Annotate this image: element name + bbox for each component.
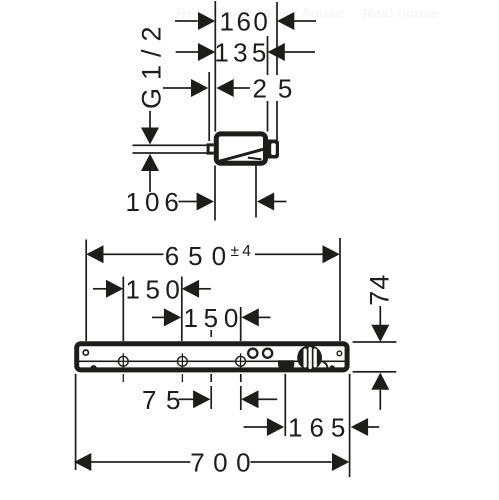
svg-text:700: 700 <box>190 448 259 478</box>
dash below bar x=182.4 <box>182 374 183 382</box>
dim 160 leader left <box>175 20 198 22</box>
dim 150a leader left <box>93 288 106 290</box>
left black dot <box>90 365 96 371</box>
dim 25 left leader <box>163 87 192 89</box>
twin ring left <box>248 349 257 358</box>
thermostat knob disc <box>297 345 322 370</box>
extension bar left x=75.6 <box>75 374 77 470</box>
dim 650 right arrow <box>323 245 340 263</box>
shelf lip <box>248 158 262 160</box>
dash below bar x=211.2 <box>210 374 212 382</box>
screw centre mark 3 <box>232 353 250 369</box>
dim 150a leader right <box>199 288 211 290</box>
extension line A (body left face) x=215.3 <box>214 1 216 132</box>
svg-text:Real-house: Real-house <box>363 5 439 21</box>
G1/2 pointer line upper <box>149 111 151 128</box>
dim 165 leader left <box>244 426 268 428</box>
dim 25 leader to text <box>233 87 250 89</box>
svg-text:25: 25 <box>253 74 304 104</box>
dim 106 right arrow <box>257 193 274 211</box>
svg-text:Real-house: Real-house <box>268 5 344 21</box>
svg-text:135: 135 <box>214 38 270 68</box>
extension line C (body right face, 135) x=267.5 <box>267 36 269 75</box>
dim 135 right arrow <box>268 43 285 61</box>
dim 650 line left <box>103 253 164 255</box>
extension line B (knob right face, 160) x=277 <box>276 2 278 75</box>
dim 74 top ref line <box>353 341 397 343</box>
dim 160 leader right <box>294 20 316 22</box>
dim 75 leader right <box>258 398 277 400</box>
center dash above bar x=211.2 <box>210 330 212 337</box>
bar outline (front view) <box>77 344 347 370</box>
dim 165 right arrow <box>351 418 368 436</box>
center line below bar x=211.2 <box>210 386 212 409</box>
right black dot <box>330 365 335 370</box>
extension bar right x=349.6 <box>349 374 351 477</box>
dim 150b leader left <box>152 317 164 319</box>
dim 135 left arrow <box>198 43 215 61</box>
dim 150a right arrow <box>182 280 199 298</box>
pipe upper line <box>133 144 208 146</box>
dim 135 leader right <box>285 51 316 53</box>
knob (side view) <box>265 140 280 159</box>
dim 75 leader left <box>179 398 194 400</box>
dim 74 down arrow <box>371 325 389 342</box>
body outline (side view) <box>216 134 265 163</box>
knob slot middle <box>309 347 312 369</box>
extension 150 x=123.3 <box>122 277 124 342</box>
svg-text:160: 160 <box>220 7 271 37</box>
line below bar x=240.8 <box>240 386 242 410</box>
extension 150 shared x=181.8 <box>181 277 183 342</box>
dim 150b right arrow <box>242 308 259 326</box>
dash below bar x=123.3 <box>123 374 124 382</box>
extension 150 right x=240.7 <box>240 307 242 341</box>
screw centre mark 1 <box>115 353 133 369</box>
dim 700 left arrow <box>74 453 91 471</box>
dim 700 right arrow <box>332 453 349 471</box>
dim 106 leader right <box>274 201 287 203</box>
dim 74 bottom ref line <box>353 371 397 373</box>
dim 75 right arrow <box>241 390 258 408</box>
dim 135 leader left <box>176 51 199 53</box>
G1/2 up arrow <box>141 154 159 171</box>
bar shelf front edge line <box>79 361 345 363</box>
screw centre mark 2 <box>174 353 192 369</box>
svg-text:G1/2: G1/2 <box>136 18 166 109</box>
dim 74 up arrow <box>371 373 389 390</box>
svg-text:150: 150 <box>184 303 244 333</box>
hand shower holder blob <box>278 360 294 369</box>
extension 165 left x=285.3 <box>284 374 286 436</box>
dim 75 left arrow <box>193 390 210 408</box>
dim 74 line lower <box>379 390 381 410</box>
dash below bar x=240.8 <box>240 374 242 382</box>
dim 160 right arrow <box>277 12 294 30</box>
twin ring right <box>263 349 272 358</box>
dim 150b leader right <box>259 317 271 319</box>
dim 650 left arrow <box>86 245 103 263</box>
knob slot right <box>314 349 317 368</box>
right small ring <box>337 351 342 356</box>
extension line D below body x=215 <box>214 166 216 221</box>
extension 650 left x=86.2 <box>85 240 87 342</box>
dim 165 left arrow <box>267 418 284 436</box>
svg-text:74: 74 <box>365 273 395 305</box>
dim 165 leader right <box>368 426 380 428</box>
dim 74 line upper <box>379 306 381 326</box>
dim 25 right arrow <box>216 79 233 97</box>
G1/2 down arrow <box>141 128 159 145</box>
dim 25 left arrow <box>191 79 208 97</box>
svg-text:165: 165 <box>288 413 352 443</box>
connection nub <box>207 143 214 154</box>
pipe lower line <box>133 152 208 154</box>
dim 25 wall line x=209.2 <box>208 72 210 141</box>
svg-text:±4: ±4 <box>231 243 255 260</box>
dim 650 line right <box>255 253 323 255</box>
dim 700 line right <box>251 461 332 463</box>
shelf diagonal <box>216 149 266 163</box>
dim 106 left arrow <box>197 193 214 211</box>
svg-text:106: 106 <box>126 187 184 217</box>
holder arc right of knob <box>323 362 328 370</box>
dim 150b left arrow <box>164 308 181 326</box>
dim 700 line left <box>91 461 191 463</box>
svg-text:650: 650 <box>165 241 235 271</box>
left small hole ring <box>83 350 88 355</box>
knob slot left <box>304 349 307 368</box>
extension 650 right x=340 <box>339 238 341 341</box>
dim 150a left arrow <box>106 280 123 298</box>
dim 106 leader left <box>179 201 197 203</box>
svg-text:150: 150 <box>126 274 186 304</box>
G1/2 pointer line lower <box>149 171 151 192</box>
extension line E below body x=256 <box>255 164 257 218</box>
dim 160 left arrow <box>198 12 215 30</box>
